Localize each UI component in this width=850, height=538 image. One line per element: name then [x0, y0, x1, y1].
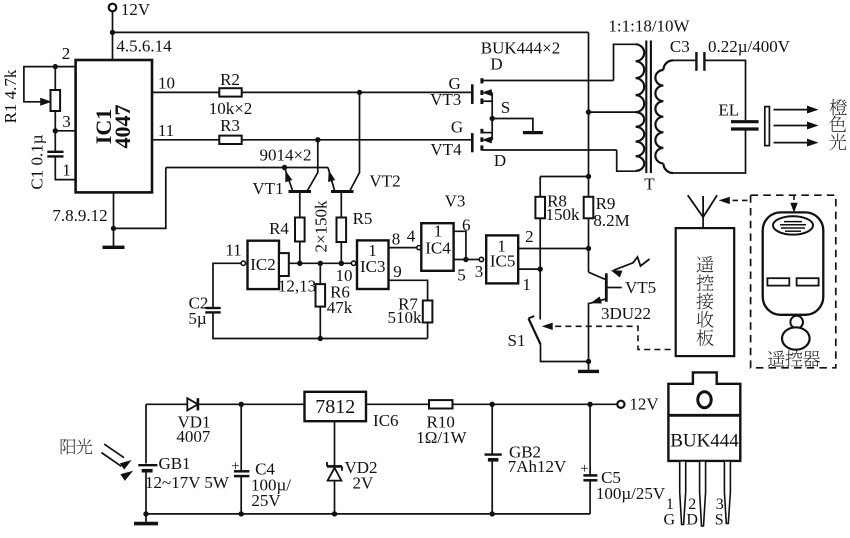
svg-text:4007: 4007	[176, 427, 211, 446]
svg-text:47k: 47k	[327, 298, 353, 317]
svg-text:+: +	[580, 461, 588, 477]
svg-text:R1 4.7k: R1 4.7k	[1, 69, 20, 123]
svg-text:VT2: VT2	[369, 172, 400, 191]
svg-text:5µ: 5µ	[188, 309, 207, 328]
svg-text:+: +	[231, 458, 239, 474]
svg-text:GB1: GB1	[158, 454, 190, 473]
svg-text:IC4: IC4	[425, 239, 451, 258]
svg-text:S: S	[715, 511, 724, 528]
svg-text:BUK444×2: BUK444×2	[481, 38, 560, 57]
svg-text:D: D	[490, 55, 502, 74]
svg-text:VT5: VT5	[625, 278, 656, 297]
svg-text:D: D	[686, 511, 698, 528]
svg-text:VT4: VT4	[430, 140, 462, 159]
svg-text:G: G	[664, 511, 676, 528]
svg-text:12~17V 5W: 12~17V 5W	[145, 473, 230, 492]
svg-text:1: 1	[62, 161, 71, 180]
svg-text:IC2: IC2	[250, 255, 276, 274]
svg-text:8.2M: 8.2M	[593, 211, 629, 230]
svg-text:1: 1	[522, 275, 531, 294]
svg-text:VT3: VT3	[430, 90, 461, 109]
svg-text:4: 4	[407, 227, 416, 246]
svg-text:3: 3	[716, 496, 724, 513]
svg-text:9014×2: 9014×2	[259, 145, 311, 164]
svg-text:R3: R3	[220, 116, 240, 135]
svg-text:7812: 7812	[315, 396, 355, 418]
svg-text:2: 2	[688, 496, 696, 513]
svg-text:2: 2	[525, 227, 534, 246]
svg-text:IC3: IC3	[360, 257, 386, 276]
svg-text:5: 5	[457, 266, 466, 285]
svg-text:6: 6	[462, 215, 471, 234]
svg-text:3: 3	[475, 262, 484, 281]
svg-text:12V: 12V	[121, 0, 151, 19]
svg-text:C3: C3	[670, 37, 690, 56]
svg-text:T: T	[644, 175, 655, 194]
svg-text:11: 11	[158, 121, 174, 140]
svg-text:4047: 4047	[110, 105, 135, 149]
svg-text:10: 10	[158, 74, 175, 93]
svg-text:R5: R5	[353, 209, 373, 228]
svg-text:100µ/25V: 100µ/25V	[596, 484, 666, 503]
svg-text:2V: 2V	[353, 474, 375, 493]
svg-text:EL: EL	[718, 100, 739, 119]
svg-text:V3: V3	[445, 192, 466, 211]
svg-text:IC6: IC6	[373, 411, 399, 430]
svg-text:BUK444: BUK444	[670, 430, 739, 451]
svg-text:10: 10	[336, 266, 353, 285]
svg-text:0.22µ/400V: 0.22µ/400V	[708, 37, 791, 56]
svg-text:1Ω/1W: 1Ω/1W	[416, 428, 467, 447]
svg-text:IC5: IC5	[490, 252, 516, 271]
svg-text:G: G	[451, 117, 463, 136]
svg-text:2: 2	[62, 44, 71, 63]
svg-text:S: S	[501, 98, 510, 117]
svg-text:C1 0.1µ: C1 0.1µ	[27, 134, 46, 189]
svg-text:4.5.6.14: 4.5.6.14	[116, 36, 172, 55]
svg-text:2×150k: 2×150k	[311, 200, 330, 253]
svg-text:7.8.9.12: 7.8.9.12	[52, 206, 107, 225]
svg-text:D: D	[494, 151, 506, 170]
svg-text:12V: 12V	[629, 395, 659, 414]
svg-text:R4: R4	[269, 219, 289, 238]
svg-text:11: 11	[225, 241, 241, 260]
svg-text:7Ah12V: 7Ah12V	[508, 457, 567, 476]
svg-text:150k: 150k	[546, 205, 581, 224]
svg-text:3DU22: 3DU22	[601, 304, 651, 323]
svg-text:R2: R2	[220, 70, 240, 89]
svg-text:VT1: VT1	[252, 179, 283, 198]
svg-text:S1: S1	[508, 331, 526, 350]
svg-text:12,13: 12,13	[278, 276, 316, 295]
svg-text:1:1:18/10W: 1:1:18/10W	[608, 16, 690, 35]
svg-text:3: 3	[62, 112, 71, 131]
svg-text:25V: 25V	[251, 491, 281, 510]
svg-text:510k: 510k	[388, 308, 423, 327]
svg-text:8: 8	[392, 229, 401, 248]
svg-text:9: 9	[393, 262, 402, 281]
